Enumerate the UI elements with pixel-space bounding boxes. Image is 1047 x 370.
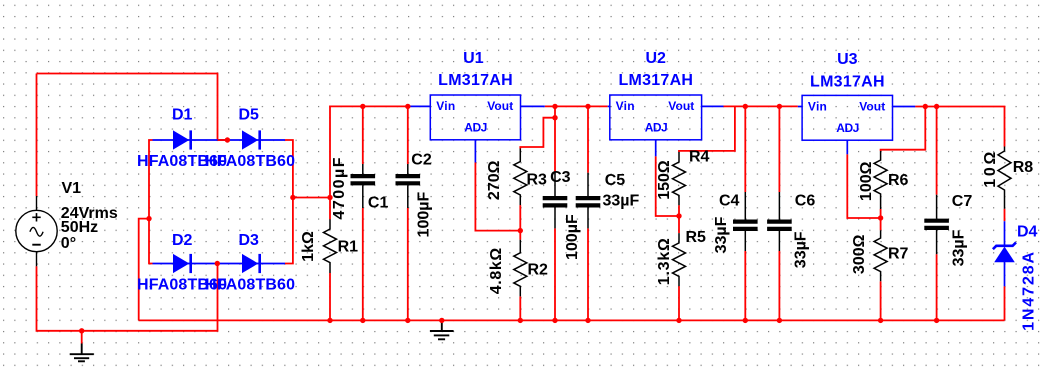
svg-text:100µF: 100µF: [564, 214, 581, 260]
svg-text:R2: R2: [528, 262, 549, 279]
node rail R7: [878, 318, 883, 323]
wire C1 bottom: [362, 208, 364, 320]
svg-text:U2: U2: [645, 50, 666, 67]
wire U1 Vout to U2 Vin: [545, 105, 608, 107]
svg-text:270Ω: 270Ω: [486, 160, 503, 200]
wire bottom rail: [139, 319, 1005, 321]
svg-text:300Ω: 300Ω: [851, 234, 868, 274]
node rail C7: [934, 318, 939, 323]
svg-text:1.3kΩ: 1.3kΩ: [656, 238, 673, 285]
svg-text:C2: C2: [411, 152, 432, 169]
diode D5: [242, 130, 260, 149]
diode D1: [173, 130, 191, 149]
svg-text:LM317AH: LM317AH: [810, 73, 885, 90]
node C7 top: [934, 104, 939, 109]
svg-text:C4: C4: [719, 192, 740, 209]
svg-text:D2: D2: [172, 232, 193, 249]
node C2 top: [405, 104, 410, 109]
resistor R2: [514, 240, 527, 297]
svg-text:C3: C3: [550, 169, 571, 186]
svg-text:50Hz: 50Hz: [61, 219, 98, 236]
wire C7 bottom: [936, 254, 938, 320]
node C5 top: [585, 104, 590, 109]
pin U1 Vin: [410, 105, 431, 107]
svg-text:33µF: 33µF: [713, 216, 730, 253]
svg-text:Vout: Vout: [668, 99, 694, 113]
svg-text:C7: C7: [952, 193, 973, 210]
wire C2 top: [407, 106, 409, 164]
capacitor C3: [543, 173, 568, 229]
svg-text:R7: R7: [888, 246, 909, 263]
ground at V1: [70, 344, 94, 362]
svg-text:ADJ: ADJ: [836, 121, 859, 135]
node C6 top: [777, 104, 782, 109]
capacitor C2: [396, 164, 421, 208]
svg-text:D4: D4: [1017, 224, 1038, 241]
wire U2 ADJ run: [656, 156, 679, 216]
svg-text:C1: C1: [368, 194, 389, 211]
node rail C1: [360, 318, 365, 323]
resistor R8: [998, 147, 1011, 209]
capacitor C1: [351, 164, 376, 208]
wire bridge output to R1 top: [293, 197, 330, 199]
wire R3 bottom lead: [519, 205, 521, 231]
op-amp U2 LM317AH box: [610, 95, 702, 140]
wire R7 bottom lead: [880, 281, 882, 320]
svg-text:HFA08TB60: HFA08TB60: [205, 277, 295, 294]
svg-text:ADJ: ADJ: [645, 121, 668, 135]
svg-text:ADJ: ADJ: [464, 121, 487, 135]
pin U2 Vin: [608, 105, 610, 107]
svg-text:Vin: Vin: [616, 99, 635, 113]
wire C6 bottom: [778, 251, 780, 320]
capacitor C5: [576, 173, 601, 229]
node R3 branch: [552, 115, 557, 120]
wire V1 to bridge top junction jog: [218, 139, 228, 141]
wire V1 top vertical: [36, 74, 38, 197]
node R1 top: [327, 195, 332, 200]
svg-text:1N4728A: 1N4728A: [1021, 251, 1038, 330]
wire R8 bottom lead: [1004, 209, 1006, 222]
svg-text:D3: D3: [239, 232, 260, 249]
svg-text:D5: D5: [239, 107, 260, 124]
wire bridge bottom row: [153, 263, 286, 265]
wire R1 top lead: [329, 198, 331, 220]
wire R2 top lead: [519, 231, 521, 240]
wire R2 bottom lead: [519, 296, 521, 320]
diode D2: [173, 254, 191, 273]
svg-text:100µF: 100µF: [415, 192, 432, 238]
resistor R5: [673, 233, 686, 286]
wire C4 top: [744, 106, 746, 192]
pin D4 top: [1004, 221, 1006, 246]
svg-text:Vout: Vout: [859, 99, 885, 113]
svg-text:C5: C5: [605, 172, 626, 189]
resistor R3: [514, 149, 527, 206]
node U2 ADJ R4 R5: [676, 213, 681, 218]
wire R6 top branch: [881, 107, 926, 152]
wire U3 ADJ run: [847, 154, 880, 218]
svg-text:Vin: Vin: [808, 99, 827, 113]
svg-text:R6: R6: [888, 172, 909, 189]
diode D4 zener: [993, 242, 1016, 262]
svg-text:LM317AH: LM317AH: [438, 72, 513, 89]
pin U2 Vout: [702, 105, 724, 107]
op-amp U1 LM317AH box: [430, 95, 520, 140]
svg-text:R5: R5: [686, 229, 707, 246]
wire V1 bottom to ground bus: [37, 264, 218, 331]
wire U3 Vout to R8: [915, 107, 1004, 147]
svg-text:C6: C6: [795, 192, 816, 209]
node C4 top: [743, 104, 748, 109]
node R6 branch: [923, 104, 928, 109]
svg-text:10Ω: 10Ω: [982, 152, 999, 188]
source V1: [16, 196, 57, 266]
svg-text:V1: V1: [62, 180, 82, 197]
node U1 ADJ R2 R3: [518, 228, 523, 233]
svg-text:100Ω: 100Ω: [858, 161, 875, 201]
wire R7 top lead: [880, 218, 882, 230]
svg-text:U1: U1: [463, 50, 484, 67]
wire C5 bottom: [587, 228, 589, 320]
wire C5 top: [587, 106, 589, 172]
wire U1 ADJ run: [475, 163, 520, 231]
svg-text:HFA08TB60: HFA08TB60: [205, 153, 295, 170]
svg-text:0°: 0°: [61, 235, 76, 252]
wire C2 bottom: [407, 208, 409, 320]
node bridge left mid: [146, 216, 151, 221]
resistor R6: [874, 151, 887, 209]
svg-text:33µF: 33µF: [603, 193, 640, 210]
wire R5 bottom lead: [678, 286, 680, 320]
node bridge top mid: [225, 137, 230, 142]
node ground V1: [79, 328, 84, 333]
svg-text:33µF: 33µF: [950, 229, 967, 266]
pin U3 ADJ: [846, 140, 848, 155]
diode D3: [242, 254, 260, 273]
pin U1 Vout: [521, 105, 545, 107]
node rail ground: [439, 318, 444, 323]
wire R4 bottom lead: [678, 205, 680, 216]
svg-text:150Ω: 150Ω: [656, 160, 673, 200]
op-amp U3 LM317AH box: [802, 95, 892, 140]
capacitor C4: [733, 192, 758, 251]
wire C4 bottom: [744, 251, 746, 320]
svg-text:R8: R8: [1013, 159, 1034, 176]
capacitor C7: [924, 195, 949, 255]
node rail R2: [518, 318, 523, 323]
svg-text:R3: R3: [527, 172, 548, 189]
wire C3 bottom: [554, 228, 556, 320]
wire R1 to top rail: [330, 106, 410, 197]
wire R5 top lead: [678, 216, 680, 233]
node bridge bottom mid: [215, 261, 220, 266]
svg-text:R4: R4: [689, 149, 710, 166]
wire bridge top row: [153, 139, 286, 141]
node rail C2: [405, 318, 410, 323]
pin U3 Vout: [893, 106, 916, 108]
wire R1 bottom lead: [329, 273, 331, 320]
node C3 top: [552, 104, 557, 109]
wire bridge left rail: [149, 140, 153, 264]
svg-text:R1: R1: [338, 239, 359, 256]
svg-text:33µF: 33µF: [793, 231, 810, 268]
wire ground stub V1: [81, 331, 83, 344]
svg-text:4.8kΩ: 4.8kΩ: [488, 248, 505, 295]
resistor R7: [874, 230, 887, 281]
wire V1 top horizontal to bridge: [37, 74, 228, 141]
pin U2 ADJ: [655, 140, 657, 157]
label V1: [61, 180, 118, 252]
capacitor C6: [767, 192, 792, 251]
wire C7 top: [936, 107, 938, 195]
pin U3 Vin: [798, 106, 802, 108]
wire bridge right rail: [285, 140, 293, 264]
ground at bottom rail: [430, 320, 454, 339]
node rail C3: [552, 318, 557, 323]
svg-text:1kΩ: 1kΩ: [300, 231, 317, 262]
node U3 ADJ R6 R7: [878, 215, 883, 220]
svg-text:Vin: Vin: [436, 99, 455, 113]
wire R4 top branch: [679, 106, 735, 152]
node rail C6: [777, 318, 782, 323]
wire R6 bottom lead: [880, 209, 882, 218]
wire D4 bottom to rail: [1004, 286, 1006, 320]
node rail R1: [327, 318, 332, 323]
resistor R4: [673, 152, 686, 205]
svg-text:U3: U3: [837, 51, 858, 68]
wire bridge left rail to bottom rail: [139, 219, 149, 321]
svg-text:D1: D1: [172, 107, 193, 124]
pin D4 bottom: [1004, 262, 1006, 286]
wire C6 top: [778, 106, 780, 192]
wire C3 top drop: [554, 106, 556, 172]
wire C1 top: [362, 106, 364, 164]
resistor R1: [324, 219, 337, 273]
wire U2 Vout to U3 Vin: [724, 105, 798, 107]
wire R3 top branch: [520, 118, 555, 149]
node rail C5: [585, 318, 590, 323]
node rail R5: [676, 318, 681, 323]
node C1 top: [360, 104, 365, 109]
node rail C4: [743, 318, 748, 323]
pin U1 ADJ: [474, 140, 476, 163]
svg-text:LM317AH: LM317AH: [618, 72, 693, 89]
svg-text:Vout: Vout: [487, 99, 513, 113]
node bridge right mid: [290, 195, 295, 200]
